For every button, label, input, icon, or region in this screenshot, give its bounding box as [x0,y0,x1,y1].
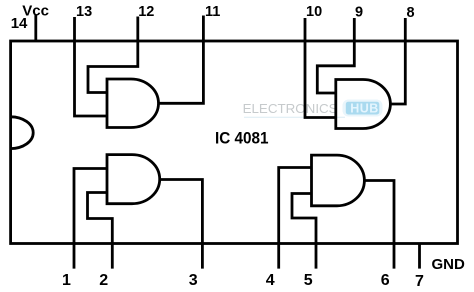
svg-text:1: 1 [62,272,71,289]
svg-text:7: 7 [415,273,424,290]
svg-text:GND: GND [432,256,466,273]
AND gate 4 (bottom-right) [312,155,365,206]
gate4 output wire to pin 6 lead [364,181,394,269]
svg-text:IC 4081: IC 4081 [215,129,269,148]
pin 1 lead + wire to gate3 upper input [74,169,107,269]
pin 2 lead + wire to gate3 lower input [88,193,113,269]
AND gate 2 (top-right) [336,80,391,129]
gate3 output wire to pin 3 lead [159,180,202,269]
notch (pin-1 index semicircle) [11,117,34,149]
svg-text:3: 3 [189,272,198,289]
pin 13 lead + wire to gate1 lower input [75,17,108,116]
svg-text:2: 2 [99,272,108,289]
svg-text:12: 12 [138,4,154,20]
pin 10 lead + wire to gate2 lower input [305,18,336,118]
pin 12 lead + wire to gate1 upper input [88,17,138,93]
AND gate 3 (bottom-left) [107,155,160,204]
pin 5 lead + wire to gate4 lower input [292,194,316,269]
svg-text:5: 5 [304,272,313,289]
svg-text:ELECTRONICS: ELECTRONICS [243,102,338,116]
gate1 output wire to pin 11 lead [158,16,203,104]
gate2 output wire to pin 8 lead [390,18,405,104]
svg-text:HUB: HUB [350,101,379,115]
pin 9 lead + wire to gate2 upper input [317,18,354,93]
AND gate 1 (top-left) [107,79,159,128]
svg-text:9: 9 [355,4,363,20]
svg-text:4: 4 [266,272,275,289]
svg-text:10: 10 [306,4,322,20]
svg-text:6: 6 [381,272,390,289]
pin 14 lead [34,15,37,42]
svg-text:14: 14 [11,15,28,32]
pin 7 lead [418,244,421,269]
svg-text:11: 11 [205,4,220,20]
pin 4 lead + wire to gate4 upper input [279,168,312,269]
IC body outline U1 [11,41,458,244]
svg-text:13: 13 [76,4,92,20]
watermark electronicshub [243,100,383,118]
svg-text:8: 8 [407,5,415,21]
